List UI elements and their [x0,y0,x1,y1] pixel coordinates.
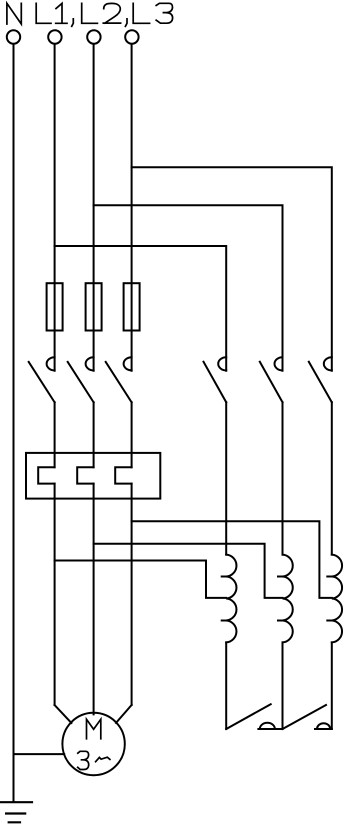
wire N vertical [13,45,15,802]
switch Q2 pole 3 blade [309,362,332,403]
motor M1 [62,713,124,775]
wire coil 2 bottom vertical [282,642,284,729]
switch Q2 pole 3 contact arc [324,357,332,370]
wire right column 3 vertical [331,402,333,554]
overload relay F4 heater 3 [115,467,131,483]
inductor T3 cusp ticks [327,577,334,621]
wire neutral to motor [14,753,65,755]
wire tap branch phase 1 [55,561,227,598]
wire L3 mid vertical [131,402,133,705]
wire L1 vertical top [54,45,56,371]
inductor T1 winding [226,555,236,643]
wire coil 1 bottom vertical [225,642,227,729]
terminal L1 [48,30,61,43]
wire L2 mid vertical [93,402,95,714]
switch Q1 pole 3 contact arc [124,357,132,370]
switch Q3 pole 1 blade [226,704,271,729]
inductor T2 winding [283,555,293,643]
overload relay F4 heater 2 [77,467,93,483]
switch Q1 pole 2 blade [68,362,94,402]
motor M1 label M [87,719,101,739]
switch Q1 pole 2 contact arc [86,357,94,370]
terminal N [7,30,20,43]
terminal L2 [87,30,100,43]
switch Q3 pole 2 stub [315,728,332,730]
switch Q3 pole 2 contact arc [317,723,330,729]
wire motor lead phase 3 [116,705,132,723]
wire branch L1 to right column 1 [55,246,227,371]
wire tap branch phase 2 [94,544,283,598]
switch Q1 pole 1 contact arc [47,357,55,370]
switch Q1 pole 1 blade [29,362,55,402]
wire tap branch phase 3 [132,521,332,598]
wire L1 mid vertical [54,402,56,705]
switch Q3 pole 2 blade [283,705,327,729]
label N L1,L2,L3 [7,3,173,26]
terminal L3 [125,30,138,43]
motor M1 label 3 [78,751,89,769]
wire right column 2 vertical [282,402,284,554]
inductor T1 cusp ticks [222,577,229,621]
inductor T3 winding [332,555,342,643]
switch Q2 pole 2 contact arc [275,357,283,370]
wire motor lead phase 1 [55,705,72,723]
switch Q2 pole 1 blade [204,362,227,403]
fuse F2 [86,283,102,330]
wire coil 3 bottom vertical [331,642,333,729]
wire L2 vertical top [93,45,95,371]
switch Q3 pole 1 stub [258,728,282,730]
fuse F1 [47,283,63,330]
wire branch L2 to right column 2 [94,205,283,371]
switch Q3 pole 1 contact arc [260,723,275,729]
switch Q2 pole 1 contact arc [218,357,226,370]
switch Q1 pole 3 blade [106,362,132,402]
overload relay F4 body [26,453,160,499]
ground [1,802,32,822]
motor M1 label tilde [96,757,110,762]
wire branch L3 to right column 3 [132,167,332,370]
fuse F3 [124,283,140,330]
wire right column 1 vertical [225,402,227,554]
wire L3 vertical top [131,45,133,371]
overload relay F4 heater 1 [38,467,54,483]
inductor T2 cusp ticks [278,577,285,621]
switch Q2 pole 2 blade [260,362,283,403]
